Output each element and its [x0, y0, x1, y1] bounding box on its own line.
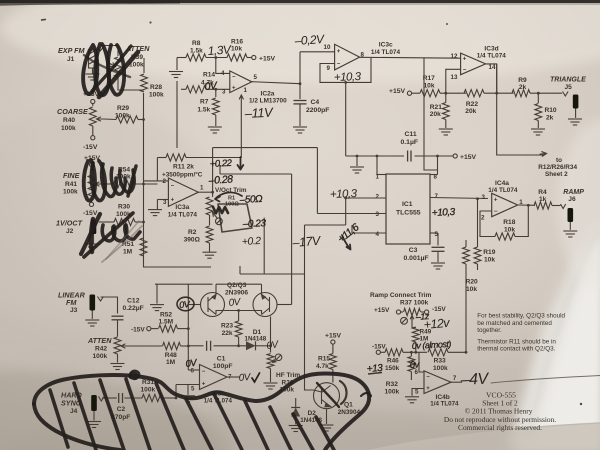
ground ground J2 — [86, 244, 100, 250]
ground ground J6 — [563, 231, 577, 237]
svg-text:R32: R32 — [386, 381, 398, 388]
capacitor capacitor C12 — [112, 316, 124, 320]
svg-text:12: 12 — [451, 53, 458, 60]
svg-text:−: − — [232, 75, 236, 81]
wire C11 row left — [346, 155, 404, 157]
svg-text:R41: R41 — [65, 181, 77, 188]
resistor resistor R19 — [474, 247, 481, 264]
junction node R17 R21 — [444, 92, 447, 95]
scribble over R41 stroke5 — [120, 170, 134, 192]
wire J1 tip to R39 — [100, 45, 118, 47]
op-amp IC4a op-amp — [492, 193, 518, 216]
svg-text:100k: 100k — [385, 389, 400, 396]
svg-text:Ramp Connect Trim: Ramp Connect Trim — [370, 292, 432, 299]
wire IC4a minus loop — [480, 211, 495, 237]
wire R16 right — [247, 57, 252, 59]
wire vertical x264 — [263, 218, 265, 274]
wire R21 to ground — [445, 120, 447, 129]
ground ground J3 — [85, 320, 99, 326]
svg-text:-15V: -15V — [372, 344, 386, 351]
svg-text:100k: 100k — [61, 125, 76, 132]
scribble over J1 stroke3 — [108, 45, 124, 95]
terminal +15V IC3d — [407, 91, 411, 95]
trimmer wiper R1 — [216, 218, 223, 225]
wire R41 low — [91, 200, 93, 203]
svg-text:thermal contact with Q2/Q3.: thermal contact with Q2/Q3. — [477, 345, 555, 352]
ground ground R7 — [208, 127, 222, 133]
svg-text:-15V: -15V — [131, 327, 145, 334]
svg-text:20k: 20k — [430, 111, 441, 118]
transistor Q3 — [253, 293, 277, 317]
jack J2 — [91, 220, 97, 235]
junction node IC2a out — [299, 82, 302, 85]
wire R14 to IC2a plus — [206, 88, 230, 90]
svg-text:−: − — [494, 209, 498, 215]
wire R40 to -15V — [92, 126, 94, 136]
svg-text:C1: C1 — [217, 356, 226, 363]
transistor Q1 — [314, 383, 340, 409]
svg-text:+: + — [337, 49, 341, 55]
wire R15 to Q1 — [332, 370, 334, 383]
wire R42 wiper to R48 — [130, 345, 163, 347]
wire R8 left — [177, 57, 186, 59]
svg-text:2: 2 — [481, 215, 485, 222]
oval hatch 11 — [316, 417, 334, 450]
wire R40 wiper to R29 — [104, 118, 116, 121]
wire pin2 wire — [346, 197, 386, 199]
svg-text:J2: J2 — [66, 228, 74, 235]
resistor pot R40 — [89, 107, 96, 126]
resistor resistor R4 — [534, 202, 552, 209]
wire C4 to ground — [299, 104, 301, 126]
wire R42 to ground — [117, 354, 119, 363]
svg-text:–11V: –11V — [243, 104, 274, 121]
scribble over R41 stroke2 — [91, 161, 105, 201]
svg-text:1V/OCT: 1V/OCT — [56, 219, 83, 228]
wire R54 to IC3a node — [135, 183, 158, 185]
wire R36 to ground — [270, 369, 272, 383]
op-amp IC3d op-amp — [461, 53, 486, 75]
wire pin3 run left — [305, 224, 346, 226]
svg-text:R18: R18 — [503, 219, 515, 226]
wire pin3 wire — [317, 213, 386, 215]
resistor resistor R28 — [141, 74, 148, 92]
svg-text:R22: R22 — [466, 101, 478, 108]
svg-text:R20: R20 — [466, 279, 478, 286]
svg-text:-15V: -15V — [83, 144, 98, 151]
svg-text:+0.22: +0.22 — [210, 158, 233, 170]
ground ground R21 — [439, 129, 453, 135]
svg-text:–0,2V: –0,2V — [293, 32, 325, 48]
svg-text:4: 4 — [221, 70, 225, 77]
wire IC3b plus in — [176, 384, 200, 386]
wire to R23 — [238, 311, 240, 322]
resistor resistor R16 — [227, 54, 247, 61]
wire row to IC4b minus — [419, 352, 424, 372]
svg-text:TLC555: TLC555 — [396, 210, 421, 217]
diode D1 — [246, 341, 256, 350]
svg-text:R23: R23 — [221, 323, 233, 330]
resistor trimmer R37 — [404, 308, 421, 315]
wire R32 down — [410, 372, 412, 381]
jack J3 tip — [98, 297, 104, 302]
wire R14 left stub — [181, 88, 186, 90]
svg-text:5: 5 — [191, 386, 195, 393]
scribble over R41 stroke3 — [102, 164, 117, 197]
svg-text:For best stability, Q2/Q3 shou: For best stability, Q2/Q3 should — [477, 313, 565, 320]
svg-text:Commercial rights reserved.: Commercial rights reserved. — [458, 423, 542, 432]
wire R37 right stub — [421, 311, 425, 313]
svg-text:+15V: +15V — [374, 307, 390, 314]
svg-text:C2: C2 — [117, 406, 126, 413]
jack J5 — [573, 95, 579, 109]
wire horizontal y174 — [220, 173, 292, 175]
resistor resistor R23 — [235, 321, 242, 337]
ground ground IC3a plus — [148, 210, 162, 216]
wire to R7 — [215, 89, 217, 97]
svg-text:1/2 LM13700: 1/2 LM13700 — [249, 98, 287, 105]
wire feedback top horizontal — [213, 147, 318, 149]
resistor resistor R8 — [186, 54, 206, 61]
wire J3 to ground — [91, 311, 93, 319]
svg-text:100k: 100k — [93, 353, 108, 360]
ground ground R36 — [264, 383, 278, 389]
wire plus node down to R19 — [477, 199, 479, 247]
svg-text:22k: 22k — [222, 330, 233, 337]
scribble pencil light1 — [102, 226, 142, 262]
svg-text:be matched and cemented: be matched and cemented — [477, 320, 552, 327]
svg-text:10k: 10k — [466, 286, 477, 293]
wire Q3 emitter up — [261, 284, 263, 294]
resistor resistor R18 — [495, 233, 515, 240]
ground ground R8 — [169, 72, 183, 78]
terminal +15V coarse — [91, 99, 95, 103]
jack J6 tip — [561, 204, 566, 209]
wire to R10 — [537, 93, 539, 103]
svg-text:3: 3 — [376, 211, 380, 218]
wire vert to IC3c input — [299, 52, 301, 84]
handwriting down arrow — [238, 157, 244, 170]
handwriting box around trimmer — [218, 204, 252, 232]
wire to C4 — [299, 84, 301, 99]
scribble over J2 diag1 — [81, 214, 100, 254]
wire R2 to ground — [209, 243, 211, 252]
R37 wiper arrow — [410, 316, 413, 322]
ground ground J5 — [568, 119, 582, 125]
wire IC3d minus to node — [446, 69, 461, 93]
wire R7 to ground — [215, 115, 217, 126]
bottom paper edge — [368, 423, 600, 450]
oval hatch 4 — [126, 379, 150, 450]
svg-text:Q1: Q1 — [344, 402, 353, 409]
svg-text:J3: J3 — [70, 307, 78, 314]
resistor trimmer R36 — [267, 354, 274, 369]
ground ground rail — [150, 305, 164, 311]
junction node D1 R36 — [269, 344, 272, 347]
svg-text:7: 7 — [435, 193, 439, 200]
svg-text:-15V: -15V — [83, 210, 98, 217]
junction node IC3a out — [211, 191, 214, 194]
capacitor capacitor C1 — [207, 341, 211, 351]
oval hatch 10 — [293, 414, 313, 450]
wire J1 to ground — [92, 68, 94, 74]
svg-text:+0.2: +0.2 — [242, 235, 262, 248]
wire pin8 stub — [430, 174, 438, 176]
scribble over J1 stroke2 — [95, 44, 109, 95]
wire plus down to R31 — [175, 385, 177, 398]
svg-text:J5: J5 — [565, 84, 573, 91]
trimmer wiper R37 — [401, 317, 408, 324]
faint pen line right of -4V — [491, 376, 600, 384]
junction node C1 D1 — [237, 344, 240, 347]
pen arc over Q1 — [340, 381, 347, 404]
jack J5 tip — [563, 92, 569, 97]
R39 wiper arrow — [107, 62, 116, 67]
jack J4 — [91, 395, 97, 411]
wire to R40 — [92, 104, 94, 106]
svg-text:C12: C12 — [127, 298, 140, 305]
wire R52 to bus — [178, 328, 189, 330]
svg-text:2k: 2k — [519, 84, 527, 91]
wire Q1 emitter down — [326, 409, 328, 424]
svg-text:−: − — [171, 183, 175, 189]
wire into IC3c plus — [300, 51, 335, 53]
svg-text:C3: C3 — [409, 247, 418, 254]
svg-text:FINE: FINE — [63, 171, 80, 180]
wire Q2 emitter up — [215, 284, 217, 294]
wire emitter rail — [216, 283, 262, 285]
scribble over R41 stroke4 — [111, 168, 125, 194]
ground ground J4 — [87, 422, 101, 428]
wire summing bus vertical — [144, 93, 212, 267]
resistor resistor R22 — [464, 90, 484, 97]
ground ground C3 — [431, 263, 445, 269]
svg-text:5: 5 — [415, 389, 419, 396]
svg-text:R8: R8 — [192, 40, 201, 47]
pen tick right of Q1 — [361, 393, 371, 396]
svg-text:EXP FM: EXP FM — [58, 46, 86, 55]
wire to R21 — [445, 93, 447, 102]
ground ground R10 — [531, 129, 545, 135]
svg-text:3: 3 — [222, 89, 226, 96]
wire J4 to C2 — [102, 397, 117, 399]
svg-text:1k: 1k — [539, 196, 547, 203]
wire to pin4 — [216, 58, 230, 74]
fold crease line — [528, 227, 599, 436]
junction node R32 — [410, 351, 413, 354]
junction node pin8 — [436, 155, 439, 158]
handwriting check at IC3b out — [252, 373, 260, 382]
wire R20 top stub — [465, 240, 467, 247]
resistor resistor R49 — [412, 327, 419, 342]
handwriting arrow to trimmer — [215, 192, 242, 201]
top dark photo edge — [0, 0, 600, 3]
wire IC3b out — [227, 376, 240, 378]
resistor resistor R14 — [186, 86, 206, 93]
wire to C1 — [188, 345, 203, 347]
wire J2 to ground — [93, 234, 95, 244]
shadow left of crease — [529, 230, 597, 438]
R42 wiper arrow — [121, 344, 130, 348]
wire IC4b plus to ground — [412, 389, 424, 396]
wire IC2a output — [252, 82, 300, 84]
wire R19 bottom stub — [477, 264, 479, 270]
wire R4 to J6 — [552, 205, 561, 207]
terminal -15V coarse — [91, 136, 95, 140]
svg-text:4.7k: 4.7k — [316, 363, 329, 370]
wire IC3a output — [198, 191, 212, 193]
svg-text:10k: 10k — [504, 226, 515, 233]
wire stub to ground — [356, 156, 358, 166]
svg-text:100k: 100k — [141, 386, 156, 393]
wire rail ground stub — [156, 284, 158, 303]
wire pin1 stub — [377, 174, 386, 176]
resistor resistor R46 — [385, 349, 403, 356]
Iabc control arrow — [239, 95, 243, 158]
svg-text:–0.28: –0.28 — [207, 173, 233, 187]
svg-text:R15: R15 — [318, 356, 330, 363]
svg-text:R42: R42 — [95, 346, 107, 353]
terminal -15V R46 — [376, 350, 380, 354]
svg-text:2200pF: 2200pF — [306, 107, 329, 114]
resistor resistor R31 — [142, 394, 162, 401]
resistor resistor R33 — [428, 349, 448, 356]
handwriting 0V circled — [177, 297, 194, 311]
svg-text:1M: 1M — [166, 359, 176, 366]
handwriting arrow +11.6 — [342, 235, 351, 250]
junction node feedback — [344, 81, 347, 84]
wire term to R17 — [412, 92, 420, 94]
scribble over J1 stroke1 — [83, 45, 97, 94]
svg-text:10: 10 — [324, 44, 331, 51]
terminal -15V R52 — [147, 327, 151, 331]
terminal +15V C11 — [453, 154, 457, 158]
resistor resistor R30 — [114, 218, 135, 225]
ground ground IC3b plus — [181, 396, 195, 402]
scribble over R41 tail — [128, 166, 136, 196]
op-amp IC3c op-amp — [335, 44, 360, 70]
op-amp IC3b op-amp — [200, 365, 228, 390]
svg-text:R30: R30 — [118, 204, 130, 211]
svg-text:7: 7 — [453, 375, 457, 382]
wire plus input IC3a — [157, 199, 168, 201]
junction node R7 — [214, 88, 217, 91]
op-amp IC2a op-amp — [230, 71, 252, 93]
wire into minus input — [144, 180, 169, 182]
wire R39 bottom to R28 node — [118, 78, 144, 90]
junction node Q2 Q3 — [237, 309, 240, 312]
junction node C11 gnd — [356, 155, 359, 158]
diode D2 — [291, 408, 300, 417]
svg-text:Sheet 2: Sheet 2 — [545, 171, 568, 178]
svg-text:10k: 10k — [231, 46, 242, 53]
svg-text:0.1µF: 0.1µF — [401, 139, 419, 146]
oval hatch 2 — [74, 383, 96, 450]
svg-text:–0.23: –0.23 — [242, 218, 267, 230]
svg-text:2: 2 — [376, 194, 380, 201]
scribble over J2 bar — [91, 219, 93, 252]
oval hatch 6 — [186, 399, 212, 450]
svg-text:1.5k: 1.5k — [190, 48, 203, 55]
terminal +15V R37 — [396, 310, 400, 314]
wire R22 to R9 — [484, 92, 514, 94]
wire collector join — [216, 311, 262, 315]
scribble over J1 slash2 — [92, 46, 131, 91]
resistor resistor R32 — [408, 357, 415, 372]
resistor trimmer R1 — [206, 197, 213, 215]
wire pin4 up jog — [351, 225, 353, 233]
wire to R41 — [91, 167, 93, 171]
ground ground C11 — [350, 167, 364, 173]
wire R29 to bus — [138, 119, 144, 121]
svg-text:0.22µF: 0.22µF — [123, 305, 144, 312]
wire R8-R16 link — [206, 57, 227, 59]
svg-text:C4: C4 — [311, 99, 320, 106]
junction node pin7 R19 — [476, 197, 479, 200]
terminal -15V R37 — [425, 310, 429, 314]
wire IC4a out — [518, 204, 535, 206]
svg-text:100k: 100k — [63, 189, 78, 196]
svg-text:+10,3: +10,3 — [432, 207, 456, 219]
svg-text:5: 5 — [254, 74, 258, 81]
oval hatch 1 — [50, 390, 68, 447]
svg-text:COARSE: COARSE — [57, 107, 88, 116]
junction node R29 — [142, 118, 145, 121]
svg-text:3: 3 — [482, 194, 486, 201]
wire node up — [270, 317, 272, 346]
wire R9 to J5 — [530, 92, 562, 94]
svg-text:R21: R21 — [430, 104, 442, 111]
junction node pin2 — [344, 197, 347, 200]
wire plus ground stub — [187, 385, 189, 395]
svg-text:+15V: +15V — [325, 333, 342, 340]
junction node R49 row — [414, 351, 417, 354]
svg-text:R37 100k: R37 100k — [400, 300, 429, 307]
svg-text:+10,3: +10,3 — [334, 71, 362, 84]
big pen oval bottom left — [34, 404, 120, 450]
wire Q1 base link — [314, 390, 322, 392]
svg-text:IC3a: IC3a — [175, 204, 189, 211]
jack J6 — [568, 208, 574, 222]
wire IC3d input to pin8 run — [424, 58, 438, 170]
svg-text:−: − — [337, 62, 341, 68]
wire pin4 stub — [352, 232, 386, 234]
junction node out feedback — [495, 92, 498, 95]
capacitor capacitor C3 — [432, 247, 445, 251]
wire box top right — [186, 157, 241, 159]
svg-text:R28: R28 — [150, 84, 162, 91]
resistor resistor R10 — [535, 104, 542, 121]
svg-text:+12v: +12v — [423, 316, 451, 332]
wire J2 to R30 — [99, 221, 114, 223]
svg-text:J4: J4 — [70, 408, 78, 415]
wire R49 to row — [415, 342, 417, 352]
svg-text:14: 14 — [489, 64, 496, 71]
svg-text:20k: 20k — [465, 108, 476, 115]
scribble over J1 slash1 — [99, 52, 138, 97]
resistor pot R42 — [114, 337, 121, 354]
svg-text:4: 4 — [376, 231, 380, 238]
svg-text:+: + — [232, 85, 236, 91]
terminal -15V fine — [89, 202, 93, 206]
wire R23 down — [238, 337, 240, 346]
svg-text:+15V: +15V — [389, 88, 406, 95]
capacitor capacitor C11 — [408, 151, 411, 162]
R40 wiper arrow — [97, 117, 105, 121]
wire R37 left stub — [401, 311, 403, 313]
svg-text:13: 13 — [451, 74, 458, 81]
capacitor capacitor C4 — [294, 101, 307, 104]
